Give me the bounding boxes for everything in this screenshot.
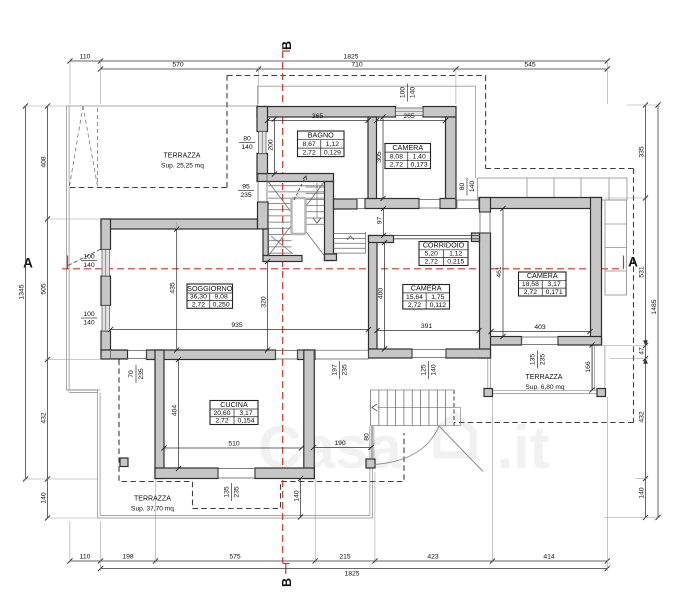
- svg-text:8,67: 8,67: [303, 141, 316, 148]
- svg-text:140: 140: [431, 364, 438, 376]
- svg-text:SOGGIORNO: SOGGIORNO: [187, 284, 233, 293]
- svg-text:0,171: 0,171: [546, 289, 563, 296]
- svg-text:20,60: 20,60: [213, 410, 230, 417]
- svg-text:435: 435: [170, 282, 177, 294]
- svg-text:235: 235: [234, 486, 241, 498]
- svg-text:400: 400: [377, 288, 384, 300]
- svg-text:198: 198: [122, 554, 134, 561]
- svg-text:140: 140: [40, 492, 47, 504]
- svg-text:140: 140: [410, 87, 417, 99]
- svg-text:CORRIDOIO: CORRIDOIO: [423, 241, 465, 250]
- svg-text:70: 70: [128, 370, 135, 378]
- svg-text:570: 570: [172, 62, 184, 69]
- svg-text:320: 320: [260, 296, 267, 308]
- svg-text:432: 432: [638, 411, 645, 423]
- svg-text:80: 80: [459, 183, 466, 191]
- svg-text:1345: 1345: [18, 284, 25, 299]
- svg-text:265: 265: [403, 113, 415, 120]
- svg-text:100: 100: [83, 254, 95, 261]
- svg-text:140: 140: [469, 181, 476, 193]
- svg-text:140: 140: [83, 320, 95, 327]
- svg-text:0,154: 0,154: [237, 418, 254, 425]
- svg-text:1,12: 1,12: [449, 251, 462, 258]
- svg-text:461: 461: [496, 266, 503, 278]
- svg-text:197: 197: [331, 364, 338, 376]
- svg-text:110: 110: [80, 54, 91, 61]
- svg-text:140: 140: [293, 490, 300, 502]
- svg-text:2,72: 2,72: [425, 259, 438, 266]
- svg-text:Sup. 37,70 mq: Sup. 37,70 mq: [131, 506, 174, 513]
- svg-text:335: 335: [638, 146, 645, 158]
- svg-text:235: 235: [240, 192, 252, 199]
- svg-text:200: 200: [267, 139, 274, 151]
- svg-text:215: 215: [339, 554, 351, 561]
- svg-text:80: 80: [364, 433, 371, 441]
- svg-text:3,17: 3,17: [548, 281, 561, 288]
- svg-text:110: 110: [80, 554, 91, 561]
- svg-text:A: A: [628, 255, 638, 270]
- svg-text:8,08: 8,08: [390, 153, 403, 160]
- svg-text:1,75: 1,75: [431, 294, 444, 301]
- svg-text:125: 125: [420, 364, 427, 376]
- svg-text:3,17: 3,17: [239, 410, 252, 417]
- svg-text:408: 408: [40, 156, 47, 168]
- svg-text:190: 190: [334, 440, 346, 447]
- svg-text:432: 432: [40, 412, 47, 424]
- svg-text:0,112: 0,112: [430, 302, 447, 309]
- svg-text:1,12: 1,12: [326, 141, 339, 148]
- svg-text:140: 140: [241, 144, 253, 151]
- svg-text:2,72: 2,72: [408, 302, 421, 309]
- svg-text:1825: 1825: [344, 571, 359, 578]
- svg-text:CAMERA: CAMERA: [411, 284, 442, 293]
- svg-text:135: 135: [223, 486, 230, 498]
- svg-text:A: A: [23, 256, 33, 271]
- svg-text:365: 365: [312, 113, 324, 120]
- svg-text:510: 510: [228, 441, 240, 448]
- svg-text:BAGNO: BAGNO: [308, 131, 334, 140]
- svg-text:0,215: 0,215: [447, 259, 464, 266]
- svg-text:0,129: 0,129: [324, 150, 341, 157]
- svg-text:710: 710: [351, 62, 363, 69]
- svg-text:100: 100: [399, 87, 406, 99]
- svg-text:505: 505: [40, 283, 47, 295]
- svg-text:2,72: 2,72: [390, 162, 403, 169]
- svg-text:CAMERA: CAMERA: [527, 271, 558, 280]
- svg-text:140: 140: [638, 487, 645, 499]
- svg-text:80: 80: [243, 136, 251, 143]
- svg-text:36,30: 36,30: [190, 294, 207, 301]
- svg-text:140: 140: [83, 262, 95, 269]
- svg-text:5,20: 5,20: [425, 251, 438, 258]
- svg-text:Sup. 6,80 mq: Sup. 6,80 mq: [525, 384, 565, 391]
- svg-text:0,250: 0,250: [213, 301, 230, 308]
- svg-text:391: 391: [421, 323, 433, 330]
- svg-text:0,173: 0,173: [411, 162, 428, 169]
- svg-text:403: 403: [534, 324, 546, 331]
- svg-text:935: 935: [231, 322, 243, 329]
- svg-text:TERRAZZA: TERRAZZA: [164, 153, 201, 160]
- svg-text:423: 423: [427, 554, 439, 561]
- svg-text:1825: 1825: [343, 54, 358, 61]
- svg-text:1485: 1485: [651, 299, 658, 314]
- svg-text:100: 100: [83, 311, 95, 318]
- svg-text:15,64: 15,64: [406, 294, 423, 301]
- svg-text:545: 545: [524, 62, 536, 69]
- svg-text:B: B: [280, 578, 294, 587]
- svg-text:97: 97: [376, 217, 383, 225]
- svg-text:166: 166: [585, 361, 592, 373]
- svg-text:.it: .it: [496, 414, 549, 481]
- svg-text:TERRAZZA: TERRAZZA: [526, 374, 563, 381]
- svg-text:2,72: 2,72: [215, 418, 228, 425]
- svg-text:B: B: [280, 41, 294, 50]
- svg-text:Sup. 25,25 mq: Sup. 25,25 mq: [161, 163, 204, 170]
- svg-text:1,40: 1,40: [413, 153, 426, 160]
- svg-text:531: 531: [638, 266, 645, 278]
- svg-text:2,72: 2,72: [524, 289, 537, 296]
- svg-text:575: 575: [229, 554, 241, 561]
- svg-text:305: 305: [376, 151, 383, 163]
- svg-text:47: 47: [638, 347, 645, 355]
- svg-text:135: 135: [529, 354, 536, 366]
- svg-text:414: 414: [543, 554, 555, 561]
- svg-text:235: 235: [342, 364, 349, 376]
- svg-text:18,58: 18,58: [522, 281, 539, 288]
- svg-text:TERRAZZA: TERRAZZA: [134, 496, 171, 503]
- svg-text:CUCINA: CUCINA: [220, 400, 248, 409]
- svg-text:235: 235: [138, 368, 145, 380]
- svg-text:9,08: 9,08: [215, 294, 228, 301]
- svg-text:CAMERA: CAMERA: [392, 143, 423, 152]
- svg-text:2,72: 2,72: [303, 150, 316, 157]
- svg-text:404: 404: [171, 405, 178, 417]
- svg-text:235: 235: [540, 354, 547, 366]
- svg-text:95: 95: [242, 184, 250, 191]
- svg-text:2,72: 2,72: [192, 301, 205, 308]
